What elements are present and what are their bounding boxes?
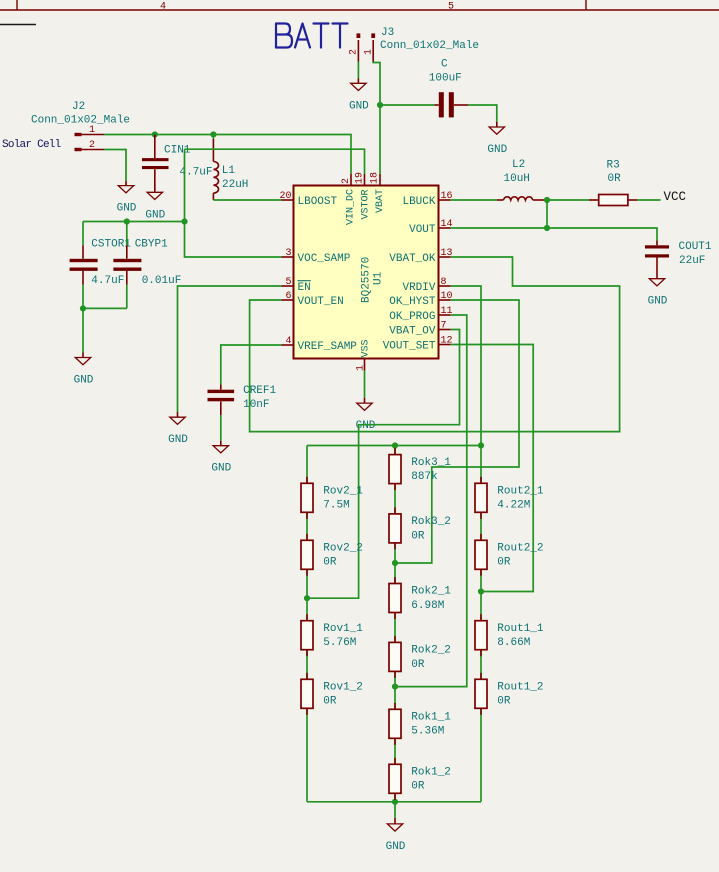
wire LBUCK pin16 to L2 [451,199,497,201]
capacitor CSTOR1 [70,222,132,309]
U1 pin 14 VOUT [409,219,452,236]
ground symbol EN [168,412,188,446]
svg-text:L1: L1 [222,165,236,177]
svg-text:Rov1_1: Rov1_1 [323,623,363,635]
svg-text:VOUT_EN: VOUT_EN [298,296,344,308]
svg-text:Rout2_1: Rout2_1 [497,486,544,498]
U1 pin 5 EN (active low, overbar) [282,277,311,294]
svg-text:22uF: 22uF [679,255,705,267]
svg-text:1: 1 [89,125,95,136]
svg-text:0R: 0R [497,696,511,708]
svg-text:8: 8 [441,277,447,288]
wire J2 pin1 to VIN_DC riser [104,135,351,175]
svg-text:CIN1: CIN1 [164,145,191,157]
svg-text:Rov2_2: Rov2_2 [323,543,363,555]
svg-text:0.01uF: 0.01uF [142,275,182,287]
svg-text:Rout1_2: Rout1_2 [497,682,543,694]
U1 pin 13 VBAT_OK [389,248,452,265]
U1 pin 2 VIN_DC (top) [341,174,356,225]
U1 pin 10 OK_HYST [389,291,452,308]
wire R3 to VCC label [637,199,661,201]
svg-text:6: 6 [285,291,291,302]
wire capacitor C to GND [468,105,497,122]
resistor Rok2_2 [389,636,451,678]
svg-text:5.36M: 5.36M [411,726,444,738]
svg-text:CREF1: CREF1 [243,385,276,397]
svg-text:J3: J3 [381,27,394,39]
svg-text:5: 5 [285,277,291,288]
svg-text:LBUCK: LBUCK [402,196,435,208]
wire CBYP1 bottom to CSTOR1 bottom [83,308,127,352]
svg-text:1: 1 [363,49,374,55]
wire VOUT_SET pin12 to Rout tap [451,345,534,592]
svg-text:887k: 887k [411,471,438,483]
svg-text:GND: GND [648,296,668,308]
junction node rail at Rout column [478,442,484,448]
svg-text:10uH: 10uH [504,173,530,185]
svg-text:20: 20 [279,191,291,202]
svg-text:VRDIV: VRDIV [402,282,435,294]
svg-text:100uF: 100uF [429,73,462,85]
ground symbol VSS [356,398,376,432]
wire VREF_SAMP pin4 to CREF1 [221,345,282,385]
svg-text:8.66M: 8.66M [497,637,530,649]
junction node bottom rail GND [392,799,398,805]
svg-text:Conn_01x02_Male: Conn_01x02_Male [31,115,130,127]
svg-text:Rok3_1: Rok3_1 [411,457,451,469]
ground symbol capacitor C [487,122,507,156]
ground symbol CIN1 [145,192,165,221]
wire J2 pin2 to GND [104,150,126,182]
svg-text:19: 19 [354,172,365,184]
wire EN pin5 to GND [178,286,282,412]
junction node Rok upper tap [392,560,398,566]
svg-text:Rok1_1: Rok1_1 [411,712,451,724]
svg-text:VOC_SAMP: VOC_SAMP [298,253,351,265]
ground symbol CREF1 [211,441,231,475]
capacitor CIN1 [142,135,213,193]
junction node VCC at L2 out [544,197,550,203]
ground symbol COUT1 [648,274,668,308]
svg-text:GND: GND [349,100,369,112]
border tick left [16,0,18,10]
svg-text:GND: GND [168,434,188,446]
resistor Rov1_1 [301,614,363,656]
wire VSTOR horizontal [185,149,365,174]
ground symbol J3 pin2 [349,79,369,113]
svg-text:Rout2_2: Rout2_2 [497,543,543,555]
resistor Rout1_1 [475,614,544,656]
junction node Rov tap [304,595,310,601]
junction node Rok lower tap [392,684,398,690]
svg-text:VSTOR: VSTOR [361,189,372,219]
svg-text:Rok1_2: Rok1_2 [411,767,451,779]
svg-text:18: 18 [370,172,381,184]
junction node CBYP1 top [124,218,130,224]
U1 pin 16 LBUCK [402,191,452,208]
wire capacitor top rail [83,221,185,223]
wire VRDIV pin8 to divider rail [451,286,481,446]
resistor R3 [589,160,637,206]
wire VBAT_OV pin7 to Rov tap [307,330,460,599]
svg-text:5: 5 [448,2,454,13]
svg-text:0R: 0R [411,781,425,793]
svg-text:GND: GND [211,463,231,475]
U1 pin 8 VRDIV [402,277,450,294]
svg-text:OK_PROG: OK_PROG [389,311,435,323]
resistor Rov2_1 [301,477,363,519]
resistor Rok3_1 [389,448,451,490]
connector J3 pin 1 [363,33,375,61]
svg-text:VREF_SAMP: VREF_SAMP [298,341,358,353]
resistor Rok2_1 [389,577,451,619]
U1 pin 11 OK_PROG [389,306,452,323]
wire VSTOR drop to VOC_SAMP [185,149,282,257]
svg-text:22uH: 22uH [222,179,248,191]
svg-text:4.22M: 4.22M [497,500,530,512]
svg-text:R3: R3 [607,160,620,172]
U1 pin 6 VOUT_EN [282,291,344,308]
wire bottom rail [307,801,481,803]
svg-text:3: 3 [285,248,291,259]
wire bottom rail to GND [394,802,396,818]
svg-text:Rok3_2: Rok3_2 [411,516,451,528]
junction node storage cap bottom [80,305,86,311]
svg-text:0R: 0R [497,557,511,569]
wire J3 pin1 to VBAT riser [373,62,380,175]
svg-text:U1: U1 [372,271,384,285]
svg-text:VOUT_SET: VOUT_SET [383,341,436,353]
svg-text:GND: GND [386,841,406,853]
wire OK_HYST pin10 to Rok tap [395,300,519,563]
inductor L2 [497,159,545,200]
svg-text:VBAT: VBAT [375,189,386,213]
svg-text:5.76M: 5.76M [323,637,356,649]
label BATT [276,24,348,48]
svg-text:COUT1: COUT1 [679,241,712,253]
junction node rail at Rok column [392,442,398,448]
U1 pin 20 LBOOST [279,191,337,208]
connector J2 pin 2 [75,140,105,151]
svg-text:LBOOST: LBOOST [298,196,338,208]
svg-text:CBYP1: CBYP1 [135,239,168,251]
U1 pin 3 VOC_SAMP [282,248,351,265]
svg-text:GND: GND [74,375,94,387]
resistor Rov1_2 [301,673,363,715]
resistor Rout2_1 [475,477,544,519]
ground symbol J2 pin2 [117,181,137,215]
svg-text:BQ25570: BQ25570 [361,257,373,303]
svg-text:VIN_DC: VIN_DC [345,189,356,225]
svg-text:C: C [441,59,448,71]
capacitor CBYP1 [113,222,181,309]
svg-text:CSTOR1: CSTOR1 [91,239,131,251]
resistor Rok3_2 [389,507,451,549]
svg-text:VCC: VCC [664,190,687,204]
svg-text:Rok2_1: Rok2_1 [411,586,451,598]
border tick right [585,0,587,10]
wire VOUT pin14 to COUT1 [451,228,657,241]
svg-text:2: 2 [349,49,360,55]
capacitor COUT1 [645,241,712,274]
svg-text:0R: 0R [323,557,337,569]
capacitor CREF1 [208,385,277,441]
svg-text:1: 1 [356,365,367,371]
sheet border line [0,9,719,11]
connector J3 pin 2 [349,33,361,61]
svg-text:GND: GND [145,209,165,221]
op IC U1 BQ25570 body [294,186,439,359]
svg-text:4.7uF: 4.7uF [91,275,124,287]
svg-text:2: 2 [89,140,95,151]
wire L2 to R3 [545,199,590,201]
svg-text:EN: EN [298,282,311,294]
svg-text:0R: 0R [608,173,622,185]
wire Rov column [306,446,308,802]
junction node BATT net [377,102,383,108]
svg-text:6.98M: 6.98M [411,600,444,612]
junction node VOC rail right [181,218,187,224]
wire VCC node down to VOUT row [546,200,548,228]
inductor L1 [213,135,248,201]
svg-text:Solar Cell: Solar Cell [2,139,61,151]
svg-text:4: 4 [160,2,166,13]
resistor Rok1_1 [389,703,451,745]
wire divider top rail [307,445,481,447]
junction node at CIN1 top [152,131,158,137]
svg-text:VBAT_OK: VBAT_OK [389,253,436,265]
junction node VOUT row [544,225,550,231]
wire VSS to GND [364,371,366,399]
ground symbol storage caps [74,353,94,387]
svg-text:Conn_01x02_Male: Conn_01x02_Male [380,40,479,52]
svg-text:Rov2_1: Rov2_1 [323,486,363,498]
U1 pin 12 VOUT_SET [383,336,453,353]
wire J3 pin2 to GND [357,62,359,79]
resistor Rov2_2 [301,534,363,576]
svg-text:0R: 0R [411,659,425,671]
connector J2 pin 1 [75,125,105,136]
wire BATT node to capacitor C [380,104,435,106]
svg-text:OK_HYST: OK_HYST [389,296,436,308]
capacitor C [429,59,468,118]
svg-text:Rout1_1: Rout1_1 [497,623,544,635]
svg-text:4: 4 [285,336,291,347]
svg-text:7.5M: 7.5M [323,500,349,512]
resistor Rout1_2 [475,673,544,715]
svg-text:GND: GND [487,144,507,156]
wire Rout column [480,446,482,802]
U1 pin 19 VSTOR (top) [354,172,371,220]
svg-text:VSS: VSS [361,339,372,357]
ground symbol divider bottom [386,818,406,853]
U1 pin 7 VBAT_OV [389,321,450,338]
svg-text:VOUT: VOUT [409,224,436,236]
junction node Rout tap [478,588,484,594]
svg-text:7: 7 [441,321,447,332]
svg-text:Rok2_2: Rok2_2 [411,645,451,657]
U1 pin 1 VSS (bottom) [356,339,372,371]
resistor Rok1_2 [389,758,451,800]
wire L1 to LBOOST pin 20 [213,199,281,201]
svg-text:2: 2 [341,178,352,184]
junction node at L1 top [210,131,216,137]
svg-text:0R: 0R [411,530,425,542]
svg-text:J2: J2 [72,101,85,113]
wire VBAT_OK pin13 to VOUT_EN pin6 [250,257,620,432]
svg-text:VBAT_OV: VBAT_OV [389,326,436,338]
title block edge line [0,24,36,26]
svg-text:Rov1_2: Rov1_2 [323,682,363,694]
resistor Rout2_2 [475,534,544,576]
svg-text:GND: GND [117,203,137,215]
U1 pin 18 VBAT (top) [370,172,387,213]
svg-text:L2: L2 [512,159,525,171]
U1 pin 4 VREF_SAMP [282,336,358,353]
wire OK_PROG pin11 to Rok lower tap [395,315,467,687]
svg-text:10nF: 10nF [243,399,269,411]
wire Rok column [394,446,396,802]
svg-text:0R: 0R [323,696,337,708]
